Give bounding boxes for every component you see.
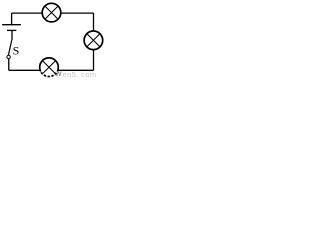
battery cell: short plate (negative) — [7, 29, 16, 31]
wire: top run from battery to top-right corner — [12, 12, 94, 14]
lamp L3: cross filament — [43, 61, 56, 74]
lamp L2: cross filament — [87, 34, 100, 47]
svg-text:en5. com: en5. com — [63, 70, 97, 79]
wire: bottom run — [9, 69, 94, 71]
lamp L1: cross filament — [45, 6, 58, 19]
svg-text:S: S — [13, 44, 20, 58]
wire: battery positive lead up to top-left corner — [11, 13, 13, 25]
battery cell: long plate (positive) — [2, 24, 21, 26]
wire: lower-left vertical from switch to bottom run — [8, 59, 10, 71]
lamp L3 (bottom): bulb circle — [40, 58, 59, 77]
lamp L1 (top): bulb circle — [42, 3, 61, 22]
wire: battery negative lead down to switch — [11, 30, 13, 40]
background — [0, 0, 105, 80]
lamp L2 (right): bulb circle — [84, 31, 103, 50]
lamp L3: watermark-broken bottom arc — [41, 71, 57, 76]
switch S: open blade — [8, 40, 11, 55]
watermark dotted marks under bottom lamp — [44, 75, 54, 77]
wire: right vertical run — [93, 13, 95, 70]
switch S: pivot contact circle — [7, 55, 10, 58]
